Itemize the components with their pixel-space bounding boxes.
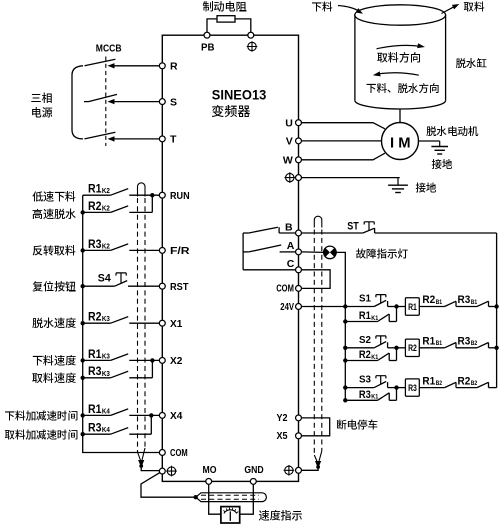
junction X4 node dot bbox=[149, 413, 153, 417]
cable shield right dashed pair bbox=[313, 230, 315, 456]
svg-text:W: W bbox=[283, 155, 293, 167]
contact R3K4 (取料加减速时间) bbox=[83, 433, 111, 435]
svg-text:取料: 取料 bbox=[464, 0, 485, 15]
svg-text:复位按钮: 复位按钮 bbox=[32, 278, 76, 294]
cable shield right arrowhead bbox=[315, 461, 321, 469]
svg-text:COM: COM bbox=[170, 447, 188, 459]
svg-text:接地: 接地 bbox=[416, 181, 437, 196]
terminal W bbox=[296, 157, 302, 163]
svg-text:B1: B1 bbox=[436, 340, 443, 347]
svg-text:速度指示: 速度指示 bbox=[259, 508, 303, 524]
meter speed indicator bbox=[221, 507, 240, 523]
MCCB pole R blade bbox=[85, 59, 116, 66]
svg-text:U: U bbox=[285, 117, 293, 129]
terminal V bbox=[296, 138, 302, 144]
svg-text:电源: 电源 bbox=[31, 104, 53, 120]
svg-text:R1: R1 bbox=[359, 310, 371, 322]
svg-text:S2: S2 bbox=[359, 334, 371, 346]
MCCB pole R arrowhead bbox=[108, 63, 115, 68]
svg-text:R3: R3 bbox=[408, 383, 417, 394]
motor M1 IM circle bbox=[382, 123, 419, 160]
svg-text:K3: K3 bbox=[102, 369, 110, 378]
svg-text:C: C bbox=[287, 258, 295, 270]
junction bus dot R1K4 bbox=[81, 413, 85, 417]
contact R1B2 (NC) bbox=[445, 382, 456, 387]
junction coil node dot R2 bbox=[394, 346, 398, 350]
svg-text:高速脱水: 高速脱水 bbox=[32, 206, 76, 222]
contact R3K1 (seal-in) bbox=[345, 399, 377, 401]
right bus wire bbox=[496, 233, 498, 388]
svg-text:K2: K2 bbox=[102, 203, 110, 212]
wire S terminal to MCCB bbox=[111, 101, 160, 103]
contact R1K2 (低速下料) bbox=[83, 194, 111, 196]
signal cable oval shield bbox=[196, 493, 267, 502]
wire drum to motor bbox=[399, 109, 401, 122]
contact R3B2 (NC) bbox=[477, 343, 489, 348]
svg-text:X4: X4 bbox=[170, 410, 183, 422]
svg-text:Y2: Y2 bbox=[277, 412, 288, 424]
svg-text:R2: R2 bbox=[359, 349, 371, 361]
svg-text:R3: R3 bbox=[359, 389, 371, 401]
svg-text:B2: B2 bbox=[471, 380, 478, 387]
wire MO to meter bbox=[209, 485, 222, 515]
svg-text:下料: 下料 bbox=[312, 0, 333, 15]
resistor braking R bbox=[217, 16, 235, 22]
svg-text:ST: ST bbox=[347, 221, 359, 233]
terminal A bbox=[296, 249, 302, 255]
svg-text:R3: R3 bbox=[88, 364, 102, 378]
ground PE bbox=[397, 178, 399, 186]
wire R3K4 join to X4 bbox=[150, 415, 152, 434]
contact R2K3 (脱水速度) bbox=[83, 322, 111, 324]
svg-text:低速下料: 低速下料 bbox=[32, 189, 76, 205]
arrow 下料方向 (ccw) bbox=[378, 73, 419, 75]
relay coil R3 bbox=[405, 379, 419, 396]
svg-text:R1: R1 bbox=[422, 336, 435, 348]
wire coil R2 to contacts bbox=[419, 347, 444, 349]
svg-text:下料、脱水方向: 下料、脱水方向 bbox=[366, 81, 440, 96]
wire shield-drain to PE left bbox=[141, 465, 159, 471]
terminal RST bbox=[159, 283, 165, 289]
contact R2K1 (seal-in) bbox=[345, 360, 377, 362]
wire PB to resistor bbox=[207, 19, 217, 35]
terminal + (top) symbol bbox=[247, 41, 258, 52]
svg-text:X1: X1 bbox=[170, 318, 183, 330]
svg-text:S1: S1 bbox=[359, 293, 371, 305]
jumper Y2 to X5 (断电停车) bbox=[302, 418, 330, 436]
svg-text:K1: K1 bbox=[371, 315, 378, 322]
terminal RUN bbox=[159, 192, 165, 198]
terminal B bbox=[296, 230, 302, 236]
wire node to coil R2 bbox=[397, 347, 406, 349]
contact R1K4 (下料加减速时间) bbox=[83, 414, 111, 416]
wire A to lamp bbox=[302, 251, 324, 254]
wire coil R1 to contacts bbox=[419, 306, 444, 308]
svg-text:R1: R1 bbox=[408, 302, 417, 313]
svg-text:R1: R1 bbox=[88, 182, 102, 196]
cable shield left top loop bbox=[138, 183, 146, 197]
wire ST to right bus bbox=[375, 232, 497, 234]
MCCB linkage dashed bbox=[105, 57, 107, 147]
terminal GND bbox=[250, 478, 256, 484]
svg-text:R1: R1 bbox=[88, 347, 102, 361]
left contact bus wire bbox=[83, 195, 159, 452]
svg-text:RUN: RUN bbox=[170, 190, 190, 202]
contact R3K2 (反转取料) bbox=[83, 249, 111, 251]
wire node to coil R1 bbox=[397, 306, 406, 308]
svg-text:PB: PB bbox=[201, 42, 215, 54]
arrow 取料方向 (cw) bbox=[377, 45, 421, 48]
terminal F/R bbox=[159, 247, 165, 253]
wire coil R3 to contacts bbox=[419, 387, 444, 389]
terminal PB bbox=[204, 32, 210, 38]
wire 24V to bus bbox=[302, 306, 346, 308]
MCCB pole T blade bbox=[85, 132, 116, 139]
junction bus dot S3 bbox=[343, 385, 347, 389]
wire node to coil R3 bbox=[397, 387, 406, 389]
wire GND to meter bbox=[239, 485, 253, 515]
terminal U bbox=[296, 120, 302, 126]
svg-text:B1: B1 bbox=[436, 299, 443, 306]
arrow 取料 out of drum bbox=[442, 6, 456, 13]
MCCB supply bracket bbox=[72, 66, 83, 139]
junction bus dot R1K1 bbox=[343, 319, 347, 323]
cable shield right converge bbox=[314, 451, 322, 462]
wire R terminal to MCCB bbox=[111, 65, 160, 67]
junction bus dot S1 bbox=[343, 304, 347, 308]
junction right bus dot row2 bbox=[494, 346, 498, 350]
wire shield-drain to PE right bbox=[302, 467, 319, 470]
svg-text:V: V bbox=[286, 136, 293, 148]
wire motor to ground bbox=[419, 140, 440, 142]
junction coil node dot R1 bbox=[394, 304, 398, 308]
wire V to motor bbox=[302, 140, 382, 142]
terminal X1 bbox=[159, 320, 165, 326]
cable shield right top loop bbox=[314, 216, 322, 227]
pushbutton S1 (start) bbox=[345, 306, 374, 308]
svg-text:S: S bbox=[170, 96, 177, 108]
terminal + (top) bbox=[248, 32, 254, 38]
svg-text:24V: 24V bbox=[280, 301, 294, 313]
arrow 下料 into drum bbox=[338, 6, 360, 12]
svg-text:下料速度: 下料速度 bbox=[32, 353, 76, 369]
svg-text:R2: R2 bbox=[408, 343, 417, 354]
contact R1K1 (seal-in) bbox=[345, 321, 377, 323]
junction right bus dot row1 bbox=[494, 304, 498, 308]
MCCB pole S blade bbox=[89, 94, 118, 101]
pushbutton S4 (复位按钮) bbox=[83, 285, 115, 287]
junction bus dot S4 bbox=[81, 284, 85, 288]
svg-text:B1: B1 bbox=[471, 299, 478, 306]
svg-text:GND: GND bbox=[244, 464, 264, 476]
svg-text:故障指示灯: 故障指示灯 bbox=[356, 246, 409, 261]
relay coil R1 bbox=[405, 298, 419, 315]
svg-text:K3: K3 bbox=[102, 351, 110, 360]
svg-text:K3: K3 bbox=[102, 314, 110, 323]
terminal COM bbox=[159, 450, 165, 456]
terminal S bbox=[159, 99, 165, 105]
S-chain left bus bbox=[344, 307, 346, 401]
svg-text:R2: R2 bbox=[88, 310, 102, 324]
cable shield left dashed pair bbox=[137, 198, 139, 452]
svg-text:取料速度: 取料速度 bbox=[32, 370, 76, 386]
jumper C to COM bbox=[302, 270, 330, 289]
terminal R bbox=[159, 63, 165, 69]
wire PE top to ground bbox=[302, 177, 400, 179]
pushbutton S3 (start) bbox=[345, 387, 374, 389]
MCCB pole T arrowhead bbox=[108, 136, 115, 141]
svg-text:R1: R1 bbox=[422, 375, 435, 387]
junction X2 node dot bbox=[150, 358, 154, 362]
terminal PE top bbox=[296, 175, 302, 181]
B-A-C bus wire bbox=[242, 233, 244, 270]
terminal T bbox=[159, 136, 165, 142]
contact R2B2 (NC) bbox=[477, 382, 489, 387]
ground motor bbox=[439, 141, 441, 147]
contact R2B1 (NC) bbox=[445, 301, 456, 306]
junction bus dot R3K3 bbox=[81, 376, 85, 380]
terminal X4 bbox=[159, 412, 165, 418]
terminal COM right bbox=[296, 285, 302, 291]
svg-text:反转取料: 反转取料 bbox=[32, 242, 76, 258]
contact R1K3 (下料速度) bbox=[83, 359, 111, 361]
inverter U1 SINEO13 box outline bbox=[162, 35, 298, 481]
svg-text:B2: B2 bbox=[436, 380, 443, 387]
wire W to motor bbox=[302, 153, 385, 160]
svg-text:T: T bbox=[170, 134, 177, 146]
signal cable conductors dashed bbox=[201, 494, 259, 496]
svg-text:R2: R2 bbox=[422, 294, 435, 306]
svg-text:变频器: 变频器 bbox=[211, 101, 251, 120]
svg-text:K1: K1 bbox=[371, 354, 378, 361]
terminal 24V bbox=[296, 304, 302, 310]
junction bus dot R2K2 bbox=[81, 210, 85, 214]
junction RUN node dot bbox=[150, 193, 154, 197]
terminal PE right bbox=[296, 467, 302, 473]
contact R3K3 (取料速度) bbox=[83, 377, 111, 379]
MCCB pole S lead bbox=[84, 101, 89, 103]
svg-text:接地: 接地 bbox=[432, 157, 453, 172]
wire resistor to plus bbox=[235, 19, 251, 35]
svg-text:R2: R2 bbox=[458, 375, 471, 387]
terminal PE top symbol bbox=[285, 172, 296, 183]
cable shield left arrowhead bbox=[138, 460, 144, 468]
svg-text:断电停车: 断电停车 bbox=[336, 418, 378, 433]
terminal Y2 bbox=[296, 415, 302, 421]
svg-text:S4: S4 bbox=[98, 272, 112, 284]
junction bus dot R3K2 bbox=[81, 248, 85, 252]
svg-text:B: B bbox=[285, 221, 293, 233]
svg-text:取料加减速时间: 取料加减速时间 bbox=[5, 427, 79, 442]
svg-text:脱水速度: 脱水速度 bbox=[32, 315, 76, 331]
junction bus dot R2K3 bbox=[81, 321, 85, 325]
svg-text:制动电阻: 制动电阻 bbox=[203, 0, 248, 15]
wire R2K2 join to RUN bbox=[151, 195, 153, 212]
svg-text:F/R: F/R bbox=[170, 245, 190, 257]
pushbutton S2 (start) bbox=[345, 347, 374, 349]
terminal PE right symbol bbox=[284, 465, 295, 476]
svg-text:A: A bbox=[287, 240, 295, 252]
wire PE to signal cable bbox=[141, 473, 196, 498]
svg-text:R3: R3 bbox=[458, 336, 471, 348]
svg-text:R2: R2 bbox=[88, 199, 102, 213]
pushbutton ST (NC) bbox=[363, 228, 375, 233]
svg-text:B2: B2 bbox=[471, 340, 478, 347]
junction bus dot S2 bbox=[343, 346, 347, 350]
terminal MO bbox=[206, 478, 212, 484]
svg-text:MO: MO bbox=[203, 464, 217, 476]
svg-text:S3: S3 bbox=[359, 374, 371, 386]
contact A-C (open) bbox=[243, 251, 249, 253]
svg-text:脱水电动机: 脱水电动机 bbox=[426, 124, 479, 139]
junction coil node dot R3 bbox=[394, 385, 398, 389]
svg-text:RST: RST bbox=[170, 281, 189, 293]
terminal X5 bbox=[296, 433, 302, 439]
wire lamp to 24V bus bbox=[336, 252, 345, 306]
svg-text:X5: X5 bbox=[277, 430, 288, 442]
cable shield left converge bbox=[138, 448, 146, 460]
svg-text:R1: R1 bbox=[88, 402, 102, 416]
wire B to ST bbox=[302, 232, 363, 234]
svg-text:R3: R3 bbox=[458, 294, 471, 306]
svg-text:下料加减速时间: 下料加减速时间 bbox=[5, 409, 79, 424]
MCCB pole S arrowhead bbox=[108, 99, 115, 104]
junction bus dot R2K1 bbox=[343, 358, 347, 362]
svg-text:K1: K1 bbox=[371, 394, 378, 401]
terminal PE left symbol bbox=[166, 466, 177, 477]
junction bus dot R3K4 bbox=[81, 432, 85, 436]
svg-text:I M: I M bbox=[390, 134, 411, 151]
wire R3K3 join to X2 bbox=[151, 360, 153, 377]
svg-text:R3: R3 bbox=[88, 237, 102, 251]
wire C to bus bbox=[243, 269, 295, 271]
svg-text:COM: COM bbox=[276, 283, 294, 295]
svg-text:MCCB: MCCB bbox=[96, 43, 122, 55]
svg-text:K2: K2 bbox=[102, 186, 110, 195]
svg-text:X2: X2 bbox=[170, 355, 183, 367]
svg-text:K4: K4 bbox=[102, 406, 110, 415]
junction bus dot R1K3 bbox=[81, 358, 85, 362]
svg-text:脱水缸: 脱水缸 bbox=[456, 56, 488, 71]
wire T terminal to MCCB bbox=[111, 138, 160, 140]
terminal X2 bbox=[159, 357, 165, 363]
terminal C bbox=[296, 267, 302, 273]
junction signal cable dot bbox=[194, 495, 198, 499]
svg-text:取料方向: 取料方向 bbox=[377, 50, 421, 66]
terminal PE left bbox=[159, 468, 165, 474]
contact R1B1 (NC) bbox=[445, 343, 456, 348]
wire U to motor bbox=[302, 123, 385, 129]
svg-text:R: R bbox=[170, 61, 178, 73]
svg-text:R3: R3 bbox=[88, 421, 102, 435]
relay coil R2 bbox=[405, 339, 419, 356]
contact B-C (closed) bbox=[243, 232, 249, 234]
svg-text:K4: K4 bbox=[102, 425, 110, 434]
fault lamp HL (故障指示灯) bbox=[324, 246, 337, 259]
svg-text:K2: K2 bbox=[102, 241, 110, 250]
contact R3B1 (NC) bbox=[477, 301, 489, 306]
contact R2K2 (高速脱水) bbox=[83, 211, 111, 213]
drum 脱水缸 body bbox=[355, 15, 446, 101]
junction bus dot R3K1 bbox=[343, 398, 347, 402]
